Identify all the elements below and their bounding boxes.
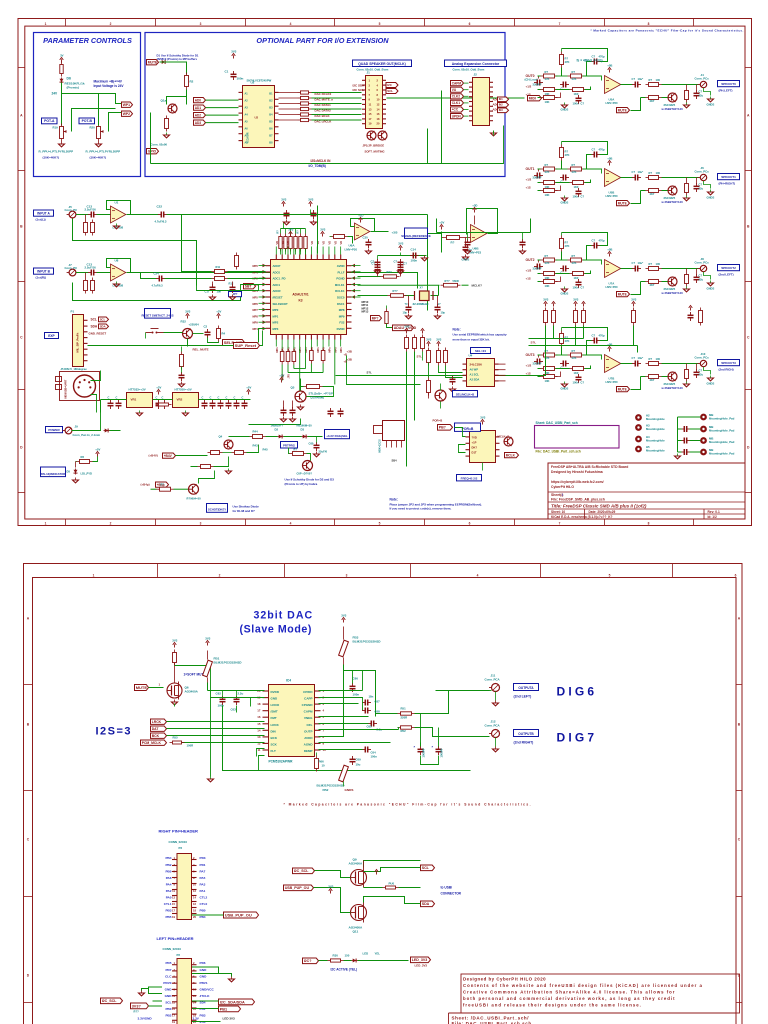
wire reset chain [181,347,183,352]
ic U4 eeprom [463,359,499,387]
net label sel mclk [453,391,478,397]
svg-text:D1T: D1T [472,451,477,455]
svg-text:Note:: Note: [390,498,398,502]
svg-text:CLK1: CLK1 [452,101,461,105]
wire fb net [561,252,563,261]
capacitor gc [576,95,582,104]
svg-text:Conn_PCA: Conn_PCA [485,724,501,728]
wires stage in [538,168,541,170]
svg-text:ADC0: ADC0 [273,270,281,274]
svg-text:R?0694=50: R?0694=50 [187,497,202,501]
svg-text:3V3: 3V3 [404,325,409,329]
svg-text:A1 SCL: A1 SCL [470,373,480,377]
svg-text:https://cyberpit.lilb.web.fc2.: https://cyberpit.lilb.web.fc2.com/ [551,480,604,484]
svg-text:2.2u: 2.2u [238,692,244,696]
svg-text:If you need to protect code(s): If you need to protect code(s), remove t… [390,507,452,511]
svg-text:INPUT B: INPUT B [37,270,50,274]
svg-text:DK?: DK? [472,446,478,450]
svg-text:Conn_PCx: Conn_PCx [695,356,710,360]
svg-text:U5A: U5A [609,98,616,102]
wire q wire [631,377,641,390]
svg-text:DAC MUTE_n: DAC MUTE_n [315,98,334,102]
svg-text:470p: 470p [599,148,605,152]
svg-text:7: 7 [559,521,561,525]
svg-text:4K7: 4K7 [650,378,655,382]
svg-text:LMV=P20: LMV=P20 [345,248,358,252]
svg-text:7: 7 [559,22,561,26]
svg-text:MP8: MP8 [339,308,345,312]
svg-text:+5B: +5B [607,157,612,161]
ic U11 mid [466,431,500,463]
wire ldoo [251,698,265,707]
svg-text:PCM_MCLK: PCM_MCLK [142,741,162,745]
svg-text:3.3V: 3.3V [200,1020,207,1024]
svg-text:MPx: MPx [275,347,279,353]
svg-text:R44: R44 [253,430,259,434]
wire conn gnd [704,88,711,96]
resistor fb top [560,52,564,68]
resistor out [646,267,662,271]
svg-text:3V3: 3V3 [631,298,636,302]
svg-text:GND_RESET: GND_RESET [89,332,107,336]
svg-text:MPx: MPx [304,347,308,353]
svg-text:10p: 10p [441,311,446,315]
svg-text:DAC LRCLK: DAC LRCLK [315,120,333,124]
resistor r power led [156,403,172,406]
svg-text:FMT: FMT [271,716,277,720]
svg-text:GNDS: GNDS [707,103,715,107]
glabel usb pup p3 [224,912,259,918]
svg-text:+3D: +3D [472,204,477,208]
svg-text:D3: D3 [301,428,305,432]
transistor Q6 page2 [167,683,182,698]
wire pullup rail h2 [529,338,584,340]
svg-text:LDL,PYD: LDL,PYD [81,472,93,476]
svg-text:OPTIONAL PART FOR I/O EXTENSIO: OPTIONAL PART FOR I/O EXTENSION [256,36,389,45]
capacitor fb [591,152,600,158]
resistor mid [570,272,587,276]
svg-text:MP6: MP6 [253,302,259,306]
wire reset net [164,332,183,334]
svg-text:Conn_02x10_Odd_Even: Conn_02x10_Odd_Even [453,68,485,72]
power pullup p1 [543,298,548,307]
svg-text:12: 12 [193,889,196,893]
header J2 analog exp [469,78,493,126]
power stage vcc [607,248,612,257]
wire dsp right top [358,276,381,278]
svg-text:(2nd LEFT): (2nd LEFT) [514,695,532,699]
svg-text:CAPM: CAPM [304,710,313,714]
svg-text:LMV=P20: LMV=P20 [606,380,619,384]
svg-text:LED_3V3: LED_3V3 [415,964,428,968]
transistor Q6 mid [435,390,446,401]
svg-text:CLC: CLC [165,974,172,978]
svg-text:MSK=12C02: MSK=12C02 [380,439,382,453]
wire under dsp bus 372 [288,372,323,374]
svg-text:C: C [108,396,110,400]
resistor qbase [646,189,662,193]
svg-text:2: 2 [110,22,112,26]
net label dsp left small [229,292,242,297]
svg-text:ADCR: ADCR [273,289,281,293]
svg-text:3V3: 3V3 [341,614,346,618]
svg-text:U7B: U7B [609,377,615,381]
svg-text:3V3: 3V3 [231,50,236,54]
svg-text:PDV0: PDV0 [163,981,171,985]
wire q6 [440,384,442,391]
svg-text:EXP: EXP [48,334,55,338]
svg-text:1: 1 [45,22,47,26]
svg-text:2: 2 [110,521,112,525]
power cluster a [281,198,286,207]
wires u4 right [495,363,506,365]
svg-text:3V3?: 3V3? [132,1004,142,1008]
svg-text:R12: R12 [229,282,234,286]
capacitor xtal 2 [435,304,441,313]
capacitor C67 [362,700,371,706]
glabel column AD0 [194,98,206,103]
svg-text:+3.3V RAIL|SEL: +3.3V RAIL|SEL [326,434,348,438]
svg-text:/: / [562,493,563,497]
switch SW2 body [383,421,405,441]
capacitors above dsp [465,239,471,248]
glabel mp pill [371,316,382,321]
power flag 3V [60,54,64,63]
svg-text:Conn_02x10_Odd_Even: Conn_02x10_Odd_Even [357,68,389,72]
diode power [104,429,110,433]
svg-text:REL_MUTE: REL_MUTE [193,348,209,352]
svg-text:5: 5 [323,715,325,719]
svg-text:LED 3V3: LED 3V3 [223,1017,236,1021]
ground stage out [684,103,690,108]
svg-text:*: * [432,745,434,750]
svg-text:+1/2: +1/2 [526,178,532,182]
wire q9 scl [364,868,421,872]
svg-text:B: B [738,723,741,727]
wire bl2 [199,471,215,484]
svg-text:22u: 22u [699,278,704,282]
svg-text:+5B: +5B [607,248,612,252]
svg-text:R?: R? [161,483,165,487]
resistor r pu0 [383,886,399,889]
svg-text:Conn_PCx: Conn_PCx [695,170,710,174]
svg-text:RIGHT PIN=HEADER: RIGHT PIN=HEADER [159,829,199,834]
mounting pad MP3 [701,427,706,432]
svg-text:I/O_TDM(B): I/O_TDM(B) [309,164,326,168]
svg-text:Contents of the website and fr: Contents of the website and freeUSBi des… [463,983,703,988]
wire adc in a [182,215,212,272]
svg-text:DIN: DIN [271,729,276,733]
svg-text:* Marked Capacitors are Panaso: * Marked Capacitors are Panasonic "ECHU"… [284,803,533,807]
svg-text:+CC: +CC [452,108,459,112]
resistor shunt1 [685,367,689,382]
svg-text:C: C [747,336,750,340]
svg-text:(10K=40K?): (10K=40K?) [43,156,60,160]
resistor adc a [212,270,228,274]
svg-text:3300PF: 3300PF [533,362,543,366]
svg-text:PA3: PA3 [200,882,206,886]
svg-text:more than or equal 32K bit.: more than or equal 32K bit. [453,337,490,341]
svg-text:AD3: AD3 [195,121,202,125]
svg-text:Title: FreeDSP Classic SMD A/B: Title: FreeDSP Classic SMD A/B plus II (… [551,504,647,509]
header P2 [172,959,197,1024]
svg-text:PB1: PB1 [200,1007,206,1011]
svg-text:I2C_SCL: I2C_SCL [102,999,118,1003]
net label SPKOUT0 [718,81,740,87]
svg-text:I2S=MCLK IN: I2S=MCLK IN [311,159,332,163]
capacitor C1 opt [231,71,237,80]
wire opamp out [621,363,633,365]
crystal X3 [414,291,416,300]
capacitor gc [576,374,582,383]
capacitor out [632,266,641,272]
svg-text:470p: 470p [599,239,605,243]
wire q wire [631,282,641,295]
svg-text:4K7: 4K7 [650,192,655,196]
svg-text:4K7: 4K7 [650,283,655,287]
svg-text:5: 5 [609,573,611,577]
glabel i2c scl q9 [293,868,315,874]
connector J4 [698,81,707,87]
svg-text:VR1: VR1 [131,398,137,402]
svg-text:DIG7: DIG7 [557,731,598,745]
svg-text:PB?: PB? [439,426,446,430]
svg-text:J5 DIN=5_180degree: J5 DIN=5_180degree [61,367,88,371]
svg-text:8: 8 [648,22,650,26]
wire sda link [364,897,421,904]
svg-text:R2: R2 [190,80,194,84]
svg-text:PB3: PB3 [200,1014,206,1018]
svg-text:(2SA4599): (2SA4599) [311,396,325,400]
gnd xtal 1 [406,314,412,319]
resistor out [646,176,662,180]
svg-text:100n: 100n [573,102,579,106]
power sigref top [472,204,477,213]
mounting pad MP2 [701,415,706,420]
gnd page2 main [208,777,214,782]
regulator caps [108,400,114,409]
resistor bias 1 [84,220,88,236]
svg-text:?VD: ?VD [472,436,477,440]
net label POWER [46,427,63,433]
svg-text:* Marked Capacitors are Panaso: * Marked Capacitors are Panasonic "ECHU"… [591,29,744,33]
jumper resistor JP2 [281,347,283,352]
wire vneg [319,716,369,718]
svg-text:D2: D2 [275,428,279,432]
svg-text:JP3: JP3 [288,374,291,379]
resistor power 2 [77,460,93,464]
glabel p2 pb1 [219,1006,241,1012]
svg-text:JTCLK: JTCLK [200,994,211,998]
svg-text:MUTE: MUTE [136,685,148,690]
wire avdd p2 [319,749,363,751]
svg-text:3V3: 3V3 [172,639,177,643]
svg-text:R51: R51 [401,707,407,711]
svg-text:(CH.Lout): (CH.Lout) [525,78,538,82]
wires cluster above dsp [280,249,282,255]
title block page 1 [548,463,745,519]
svg-text:MCLK?: MCLK? [472,284,483,288]
svg-text:+1S: +1S [526,186,531,190]
svg-text:PB2: PB2 [165,1014,171,1018]
wire c17 c18 [212,282,214,285]
svg-text:AD0: AD0 [195,98,202,102]
connector J7 [67,269,76,276]
svg-text:HT7533=+3V: HT7533=+3V [129,388,146,392]
resistor in1 U7A [541,258,558,262]
svg-text:8: 8 [648,521,650,525]
wire dsp left lower [197,286,259,291]
svg-text:Conn_PCx: Conn_PCx [695,77,710,81]
svg-text:CAPP: CAPP [304,697,312,701]
svg-text:Sheet: 10: Sheet: 10 [551,510,565,514]
wire glabel2 feed [109,113,122,132]
svg-text:MIDI: MIDI [529,97,536,101]
svg-text:(Promis to HT) by habra: (Promis to HT) by habra [285,482,318,486]
svg-text:GND: GND [200,968,208,972]
svg-text:C22: C22 [157,205,163,209]
wire sck stub [257,749,265,757]
wire u6a fb [351,219,375,232]
opamp U5A [605,76,621,94]
svg-text:+1/2: +1/2 [526,364,532,368]
net label por b [455,423,481,431]
glabel MUTE optbox [147,60,159,65]
net label OUTPUTB [514,730,539,737]
svg-text:LRCK: LRCK [152,720,162,724]
power cluster b [308,198,313,207]
resistor R3 vert [165,116,169,132]
resistors near q6 [427,348,431,366]
svg-text:JP?: JP? [233,292,238,296]
opamp U5B [605,169,621,187]
svg-text:R?: R? [565,57,569,61]
glabels J2 left [451,81,464,86]
svg-text:LMV=P20: LMV=P20 [606,101,619,105]
svg-text:CLK2: CLK2 [452,95,461,99]
net label INPUT A [34,210,54,216]
wire led net [319,960,328,962]
wire to conn [662,84,699,86]
parameter controls box [34,33,141,177]
svg-text:C?: C? [699,90,703,94]
svg-text:A: A [27,617,30,621]
svg-text:PA2: PA2 [166,889,172,893]
wire pot b feed [72,109,116,132]
svg-text:PLLF: PLLF [338,270,345,274]
power dsp top [288,228,293,237]
svg-text:47K: 47K [572,356,577,360]
wire sda scl bus [347,356,421,385]
resistor adc mid v [235,253,239,270]
svg-text:VD: VD [327,241,331,245]
wire q6 drain [174,663,176,683]
wire opamp out [621,268,633,270]
svg-text:C: C [116,396,118,400]
svg-text:MUTE: MUTE [148,61,158,65]
svg-text:Conn_PC: Conn_PC [65,208,78,212]
svg-text:3.3V/GND: 3.3V/GND [138,1017,153,1021]
svg-text:MPx: MPx [298,347,302,353]
svg-text:DVDD: DVDD [337,327,345,331]
sheet frame page 2 [24,564,743,1024]
svg-text:C: C [20,336,23,340]
svg-text:C65: C65 [367,725,373,729]
svg-text:1N5819 (Promis) to MP buffers: 1N5819 (Promis) to MP buffers [157,57,198,61]
svg-text:C24: C24 [154,272,160,276]
wire adc in b [165,278,212,280]
svg-text:+3V: +3V [279,374,284,378]
capacitor C24 [156,276,165,282]
resistor left low [180,352,184,370]
transistor Q2 soft muting [367,131,376,140]
svg-text:CTL2: CTL2 [200,896,208,900]
wires U2 to RN1 [279,92,298,94]
svg-text:w 2SB2794Y140: w 2SB2794Y140 [661,200,684,204]
wire bus input a [73,219,197,286]
wire d2 d3 [247,436,250,438]
wire input [76,214,89,216]
capacitor shunt [694,369,700,378]
wire q5 up [300,379,302,391]
capacitor out [632,361,641,367]
svg-text:47K: 47K [545,261,550,265]
wire p2 gnd right [192,967,219,974]
svg-text:DIG6: DIG6 [557,685,598,699]
svg-text:16: 16 [257,715,261,719]
svg-text:SEL/MCLK=B: SEL/MCLK=B [456,392,475,396]
wire c70 c71 [420,714,422,747]
opamp U7A [605,260,621,278]
svg-text:MCLK=B: MCLK=B [498,435,510,439]
capacitor c18 [230,284,236,293]
svg-text:R?: R? [572,349,576,353]
svg-text:R?: R? [294,448,298,452]
glabel dvdd [393,325,417,331]
svg-text:PCM5102APWR: PCM5102APWR [269,760,294,764]
regulator wires [101,399,127,401]
wire reset down [187,339,189,347]
capacitor C64 [362,747,371,753]
svg-text:C: C [218,396,220,400]
svg-text:10u*: 10u* [638,261,645,265]
net label POT-B [79,118,95,124]
svg-text:C?: C? [592,239,596,243]
resistor out [646,83,662,87]
svg-text:OUT2: OUT2 [526,258,535,262]
wire conn gnd [704,367,711,375]
regulator U10 [173,393,199,408]
wire j12 gnd [495,738,497,747]
wire selfboot [260,331,263,346]
svg-text:C14: C14 [411,248,417,252]
ferrite FB1 [203,660,213,677]
svg-text:32.2688kHz: 32.2688kHz [413,302,430,306]
wires stage in [538,259,541,261]
svg-text:VD: VD [333,241,337,245]
svg-text:SPKOUT2: SPKOUT2 [721,266,736,270]
wire to opamp [97,272,111,274]
wire p1 [88,345,118,347]
ground stage out [684,196,690,201]
svg-text:4.7uF/6.3: 4.7uF/6.3 [152,284,164,288]
wire q9 top [363,861,365,868]
svg-text:4: 4 [193,863,195,867]
mounting hole H5 [636,447,641,452]
wire pullup rail h [529,345,638,347]
ground pot b [96,142,102,147]
wire power led [93,457,98,462]
